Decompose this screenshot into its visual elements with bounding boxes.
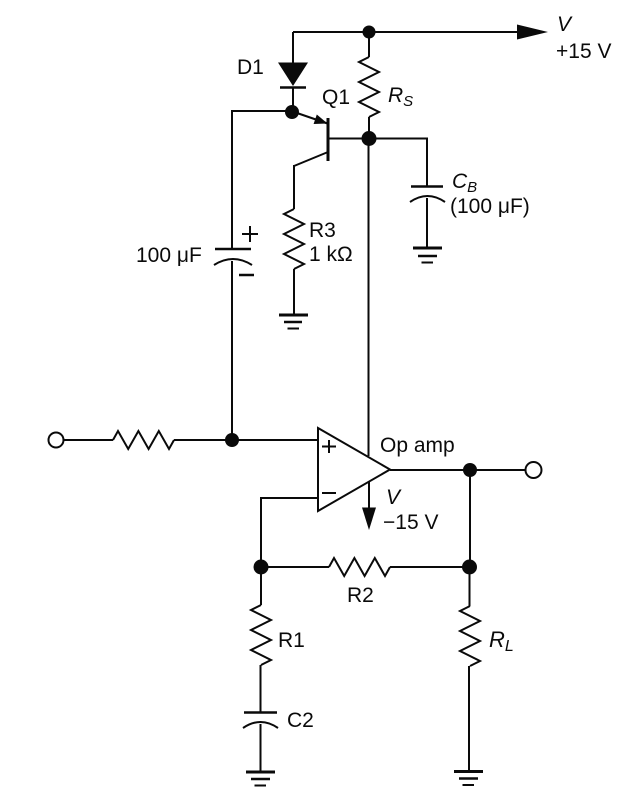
capacitor C2	[243, 713, 278, 729]
wire: feedback from - input	[261, 498, 318, 567]
wire: R1 to C2	[260, 665, 262, 713]
svg-text:V: V	[386, 486, 402, 509]
input terminal	[49, 433, 64, 448]
resistor R1	[251, 605, 271, 665]
ground (C2)	[246, 772, 275, 786]
wire: R3 to ground	[293, 269, 295, 315]
wire: C2 to ground	[260, 724, 262, 772]
svg-text:R2: R2	[347, 584, 374, 607]
svg-text:CB: CB	[452, 170, 477, 196]
svg-text:100 μF: 100 μF	[136, 244, 202, 267]
supply arrow V +15V	[517, 25, 548, 40]
svg-text:−15 V: −15 V	[383, 511, 438, 534]
wire: node to CB	[369, 139, 427, 188]
wire: supply node down to op-amp V+	[368, 139, 370, 456]
svg-text:+15 V: +15 V	[556, 40, 611, 63]
svg-text:Op amp: Op amp	[380, 434, 455, 457]
resistor RS	[359, 57, 379, 117]
wire: RS to node	[368, 117, 370, 139]
svg-text:(100 μF): (100 μF)	[450, 195, 530, 218]
node: D1 cathode / Q1 emitter	[285, 105, 299, 119]
wire: collector to R3	[293, 165, 295, 209]
svg-text:Q1: Q1	[322, 86, 350, 109]
wire: CB to ground	[426, 198, 428, 248]
resistor R2	[329, 558, 390, 576]
resistor R3	[284, 209, 304, 269]
ground (CB)	[413, 248, 442, 263]
output terminal	[526, 462, 542, 478]
wire: D1 to node	[292, 87, 294, 112]
node: input junction	[225, 433, 239, 447]
wire: left node to R2	[261, 566, 329, 568]
ground (R3)	[279, 315, 308, 329]
wire: cap to input line	[231, 261, 233, 440]
resistor RL	[460, 606, 480, 666]
wire: emitter node to left branch	[232, 111, 292, 249]
wire: rail down to D1	[292, 32, 294, 63]
node: R1/R2 junction	[254, 560, 269, 575]
node: top rail junction	[363, 26, 376, 39]
input resistor	[113, 431, 174, 449]
supply arrow V -15V	[362, 482, 376, 530]
op-amp U1	[318, 428, 390, 511]
diode D1	[278, 63, 308, 87]
capacitor CB	[410, 187, 445, 203]
wire: RL to ground	[468, 666, 470, 771]
wire: R2 to right node	[390, 566, 470, 568]
svg-text:V: V	[557, 13, 573, 36]
wire: resistor to op-amp + input	[174, 439, 318, 441]
wire: rail to RS	[368, 32, 370, 57]
node: RS / Q1 base / CB / op-amp supply	[362, 131, 377, 146]
transistor Q1	[294, 113, 362, 166]
svg-text:1 kΩ: 1 kΩ	[309, 243, 353, 266]
node: R2/RL junction	[462, 560, 477, 575]
svg-text:RS: RS	[388, 84, 413, 110]
svg-text:C2: C2	[287, 709, 314, 732]
wire: right node to RL	[469, 567, 471, 606]
svg-text:D1: D1	[237, 56, 264, 79]
wire: output node down	[469, 470, 471, 567]
node: output junction	[463, 463, 477, 477]
wire: top supply rail	[293, 31, 518, 33]
wire: left node to R1	[260, 567, 262, 605]
svg-text:R3: R3	[309, 219, 336, 242]
capacitor 100uF (electrolytic)	[214, 226, 258, 275]
svg-text:R1: R1	[278, 629, 305, 652]
svg-text:RL: RL	[489, 627, 514, 655]
wire: input terminal to resistor	[64, 439, 113, 441]
wire: op-amp output	[390, 469, 526, 471]
ground (RL)	[454, 772, 483, 786]
